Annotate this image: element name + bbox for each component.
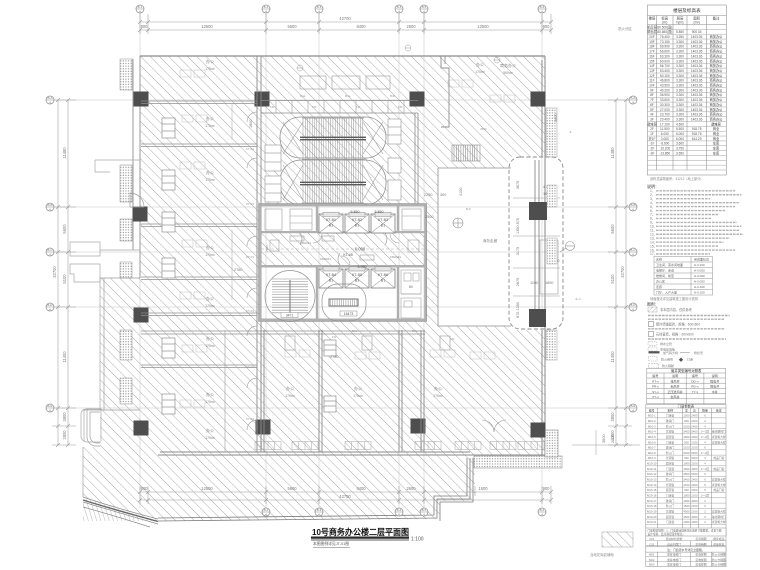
north service band walls xyxy=(261,101,418,114)
svg-text:铀化钢梯门: 铀化钢梯门 xyxy=(712,430,726,434)
svg-text:乘客电梯门: 乘客电梯门 xyxy=(667,562,681,566)
svg-text:2780: 2780 xyxy=(234,268,242,272)
svg-text:17、: 17、 xyxy=(650,252,657,256)
svg-text:73.150: 73.150 xyxy=(660,40,670,44)
svg-text:3.300: 3.300 xyxy=(676,45,684,49)
svg-text:5400: 5400 xyxy=(691,451,698,455)
right office void boundary xyxy=(438,168,511,326)
svg-text:5600: 5600 xyxy=(610,224,615,234)
SW road surface xyxy=(83,498,158,521)
svg-text:M10-8: M10-8 xyxy=(648,451,656,455)
east corridor columns xyxy=(529,202,547,327)
svg-text:PR-n: PR-n xyxy=(652,385,659,389)
svg-text:3.300: 3.300 xyxy=(676,88,684,92)
adjacent structure west xyxy=(70,242,140,442)
svg-text:66.600: 66.600 xyxy=(660,50,670,54)
leader circles top xyxy=(297,45,500,71)
svg-text:KT-03: KT-03 xyxy=(246,202,254,206)
svg-text:B7a: B7a xyxy=(352,329,358,333)
svg-text:4500: 4500 xyxy=(480,127,487,131)
svg-text:46.800: 46.800 xyxy=(660,79,670,83)
svg-text:1403.36: 1403.36 xyxy=(691,93,703,97)
svg-text:防火门: 防火门 xyxy=(666,504,675,508)
svg-text:614.29: 614.29 xyxy=(692,137,702,141)
svg-text:M10-17: M10-17 xyxy=(647,499,657,503)
svg-text:3.300: 3.300 xyxy=(676,79,684,83)
svg-text:175m²: 175m² xyxy=(285,394,295,398)
svg-text:C01: C01 xyxy=(649,537,655,541)
svg-text:M01: M01 xyxy=(649,553,655,557)
west wing AC shaft boxes xyxy=(162,118,175,414)
svg-text:B1: B1 xyxy=(355,224,359,228)
svg-text:编号: 编号 xyxy=(649,408,655,413)
svg-text:楼梯间、前室: 楼梯间、前室 xyxy=(656,273,674,278)
south-east paving band xyxy=(474,456,562,468)
corridor door squiggles xyxy=(290,233,387,265)
svg-text:详建筑大样: 详建筑大样 xyxy=(712,478,726,482)
svg-text:2400: 2400 xyxy=(691,483,698,487)
svg-text:B-E: B-E xyxy=(630,404,635,408)
svg-text:B-6: B-6 xyxy=(540,508,545,512)
svg-text:商务办公: 商务办公 xyxy=(710,78,724,83)
svg-text:名称: 名称 xyxy=(667,408,673,413)
svg-text:42700: 42700 xyxy=(339,16,351,21)
east corridor dashed outline xyxy=(509,157,563,329)
svg-text:175m²: 175m² xyxy=(475,70,485,74)
svg-text:1350 875: 1350 875 xyxy=(516,218,520,234)
svg-text:3.650: 3.650 xyxy=(676,151,684,155)
svg-text:3.300: 3.300 xyxy=(676,113,684,117)
svg-text:商务办公: 商务办公 xyxy=(710,107,724,112)
svg-text:M10-6: M10-6 xyxy=(648,440,656,444)
svg-text:C02: C02 xyxy=(649,542,655,546)
svg-text:编号: 编号 xyxy=(692,373,698,378)
svg-text:900: 900 xyxy=(684,440,689,444)
svg-text:-13.850: -13.850 xyxy=(659,151,670,155)
svg-text:800: 800 xyxy=(141,24,149,29)
svg-text:B-2: B-2 xyxy=(264,5,269,9)
svg-text:B-E: B-E xyxy=(47,404,52,408)
svg-text:6.000: 6.000 xyxy=(676,137,684,141)
svg-text:3471: 3471 xyxy=(286,314,294,318)
svg-text:1000: 1000 xyxy=(683,494,690,498)
svg-text:排风井: 排风井 xyxy=(670,379,679,384)
corridor riser boxes mid xyxy=(324,340,336,412)
svg-text:560m²: 560m² xyxy=(503,71,513,75)
svg-text:M10-19: M10-19 xyxy=(647,510,657,514)
svg-text:B7a: B7a xyxy=(412,329,418,333)
svg-text:新风井: 新风井 xyxy=(670,394,679,399)
svg-text:1403.36: 1403.36 xyxy=(691,88,703,92)
svg-text:53.400: 53.400 xyxy=(660,69,670,73)
svg-text:玻璃门: 玻璃门 xyxy=(666,419,675,423)
svg-text:固定窗: 固定窗 xyxy=(666,515,675,519)
svg-text:RD-n: RD-n xyxy=(691,385,698,389)
svg-text:3.300: 3.300 xyxy=(676,50,684,54)
svg-text:楼层及标高表: 楼层及标高表 xyxy=(673,7,701,14)
svg-text:2180: 2180 xyxy=(265,245,269,252)
svg-text:17.100: 17.100 xyxy=(660,122,670,126)
svg-text:见帘稍图: 见帘稍图 xyxy=(695,537,706,541)
small escape stair top xyxy=(452,145,480,161)
svg-text:商务办公: 商务办公 xyxy=(710,63,724,68)
south band top wall xyxy=(141,331,425,334)
bottom grid bubbles xyxy=(262,508,270,516)
svg-text:3800: 3800 xyxy=(601,434,606,443)
svg-text:B-D: B-D xyxy=(47,303,53,307)
svg-text:2100: 2100 xyxy=(691,446,698,450)
svg-text:玻璃门: 玻璃门 xyxy=(666,446,675,450)
svg-text:4500: 4500 xyxy=(683,515,690,519)
svg-text:商业: 商业 xyxy=(713,131,719,136)
leader circle right xyxy=(560,242,575,253)
svg-text:景观窗: 景观窗 xyxy=(666,456,675,460)
svg-text:强电井: 强电井 xyxy=(710,379,719,384)
svg-text:M10-1: M10-1 xyxy=(648,414,656,418)
pipe shaft table xyxy=(647,368,726,403)
svg-text:175m²: 175m² xyxy=(205,344,215,348)
svg-text:央1F: 央1F xyxy=(649,136,656,141)
svg-text:M10-2: M10-2 xyxy=(648,419,656,423)
svg-text:石材幕墙，规格：600x900: 石材幕墙，规格：600x900 xyxy=(656,332,694,337)
svg-text:说明: 说明 xyxy=(712,373,718,378)
svg-text:走廊: 走廊 xyxy=(656,284,662,289)
svg-text:商务走廊: 商务走廊 xyxy=(483,238,498,243)
svg-text:2100: 2100 xyxy=(691,462,698,466)
svg-text:3.300: 3.300 xyxy=(676,59,684,63)
svg-text:1～2层: 1～2层 xyxy=(701,435,710,439)
hatched floor slab xyxy=(83,56,545,521)
svg-text:2600: 2600 xyxy=(406,486,416,491)
elevators row 1 xyxy=(319,214,343,233)
svg-text:避难层: 避难层 xyxy=(647,121,657,126)
svg-text:正压送风井: 正压送风井 xyxy=(667,389,682,394)
svg-text:2500: 2500 xyxy=(425,215,433,219)
north wall xyxy=(140,55,545,57)
svg-text:4F: 4F xyxy=(650,113,654,117)
svg-text:商务办公: 商务办公 xyxy=(710,68,724,73)
svg-text:63.300: 63.300 xyxy=(660,54,670,58)
svg-text:办公: 办公 xyxy=(354,385,362,391)
svg-text:5600: 5600 xyxy=(287,486,297,491)
west wing inner partition xyxy=(231,104,233,300)
svg-text:管井类型编号对照表: 管井类型编号对照表 xyxy=(671,368,702,373)
svg-text:2100: 2100 xyxy=(683,483,690,487)
svg-text:5800: 5800 xyxy=(554,114,558,122)
svg-text:4.600: 4.600 xyxy=(676,122,684,126)
svg-text:商业: 商业 xyxy=(713,136,719,141)
svg-text:M10-18: M10-18 xyxy=(647,504,657,508)
escalator cross braces xyxy=(283,122,383,200)
svg-text:M10-4: M10-4 xyxy=(648,430,656,434)
east corridor cutout xyxy=(508,157,564,330)
column symbol circle xyxy=(453,218,463,228)
svg-text:2100: 2100 xyxy=(683,424,690,428)
svg-text:商务办公: 商务办公 xyxy=(710,112,724,117)
svg-text:6F: 6F xyxy=(650,103,654,107)
svg-text:M02: M02 xyxy=(649,558,655,562)
svg-text:B-A: B-A xyxy=(630,96,635,100)
svg-text:1403.36: 1403.36 xyxy=(691,50,703,54)
svg-text:图例：: 图例： xyxy=(647,302,658,307)
svg-text:5400: 5400 xyxy=(691,430,698,434)
svg-text:防火隔斷: 防火隔斷 xyxy=(662,363,674,368)
svg-text:2400: 2400 xyxy=(691,424,698,428)
svg-text:1403.36: 1403.36 xyxy=(691,54,703,58)
svg-text:M10-10: M10-10 xyxy=(647,462,657,466)
svg-text:3.300: 3.300 xyxy=(676,54,684,58)
svg-text:水井: 水井 xyxy=(712,389,718,394)
svg-text:B-B: B-B xyxy=(630,203,635,207)
svg-text:16F: 16F xyxy=(649,54,655,58)
door window schedule table xyxy=(646,405,726,567)
svg-text:M10-5: M10-5 xyxy=(648,435,656,439)
svg-text:办公: 办公 xyxy=(206,335,214,341)
svg-text:(m): (m) xyxy=(662,21,667,25)
svg-text:3175: 3175 xyxy=(516,247,520,255)
core walls gray fill xyxy=(259,204,428,322)
svg-text:1～2层: 1～2层 xyxy=(701,451,710,455)
core corridor details xyxy=(261,234,425,265)
svg-text:新风井: 新风井 xyxy=(670,384,679,389)
svg-text:(m²): (m²) xyxy=(693,21,699,25)
svg-text:商业: 商业 xyxy=(713,126,719,131)
svg-text:弱电井: 弱电井 xyxy=(710,384,719,389)
svg-text:2780: 2780 xyxy=(330,355,338,359)
svg-text:5.500: 5.500 xyxy=(676,127,684,131)
svg-text:3800: 3800 xyxy=(610,412,615,422)
svg-text:5600: 5600 xyxy=(287,24,297,29)
svg-text:6.000: 6.000 xyxy=(661,132,669,136)
svg-text:办公: 办公 xyxy=(286,385,294,391)
svg-text:见电梯图: 见电梯图 xyxy=(695,562,706,566)
svg-text:900: 900 xyxy=(543,24,551,29)
svg-text:3.300: 3.300 xyxy=(676,64,684,68)
svg-text:商务办公: 商务办公 xyxy=(710,39,724,44)
svg-text:栎栏景: 栎栏景 xyxy=(694,350,703,355)
west wing door arcs xyxy=(247,112,257,430)
svg-text:5.850: 5.850 xyxy=(676,30,684,34)
svg-text:JL: JL xyxy=(569,130,573,134)
svg-text:乘客电梯门: 乘客电梯门 xyxy=(667,553,681,557)
svg-text:4500: 4500 xyxy=(683,472,690,476)
svg-text:175m²: 175m² xyxy=(205,253,215,257)
svg-text:机房层: 机房层 xyxy=(647,24,657,29)
svg-text:商务办公: 商务办公 xyxy=(710,83,724,88)
svg-text:2600: 2600 xyxy=(406,24,416,29)
svg-text:20F: 20F xyxy=(649,35,655,39)
svg-text:1500: 1500 xyxy=(683,414,690,418)
svg-text:11F: 11F xyxy=(649,79,654,83)
svg-text:详建筑大样: 详建筑大样 xyxy=(712,510,726,514)
svg-text:办公: 办公 xyxy=(476,61,484,67)
svg-text:175m²: 175m² xyxy=(205,436,215,440)
svg-text:B1: B1 xyxy=(381,279,385,283)
svg-text:900.34: 900.34 xyxy=(692,30,702,34)
escalator tread band xyxy=(303,118,363,204)
svg-text:900: 900 xyxy=(684,419,689,423)
svg-text:40.200: 40.200 xyxy=(660,88,670,92)
svg-text:1～2层: 1～2层 xyxy=(701,494,710,498)
svg-text:H-0.050: H-0.050 xyxy=(694,268,705,272)
svg-text:办公: 办公 xyxy=(206,295,214,301)
structural columns xyxy=(133,92,546,438)
svg-text:2400: 2400 xyxy=(691,478,698,482)
east corridor dim texts xyxy=(516,181,560,318)
svg-text:11480: 11480 xyxy=(62,147,67,159)
svg-text:32700: 32700 xyxy=(52,266,57,278)
svg-text:FM: FM xyxy=(332,335,337,339)
svg-text:PT-n: PT-n xyxy=(652,380,659,384)
svg-text:B4b: B4b xyxy=(390,94,396,98)
svg-text:办公: 办公 xyxy=(206,427,214,433)
core cutout lower band xyxy=(260,266,425,321)
east wall xyxy=(542,56,545,457)
svg-text:M10-15: M10-15 xyxy=(647,488,657,492)
svg-text:B-3: B-3 xyxy=(317,5,322,9)
svg-text:20.400: 20.400 xyxy=(660,117,670,121)
svg-text:KT-03: KT-03 xyxy=(246,365,254,369)
svg-text:KT-B2: KT-B2 xyxy=(352,218,362,222)
svg-text:2F: 2F xyxy=(650,127,654,131)
svg-text:数量: 数量 xyxy=(702,408,708,413)
svg-text:商务办公: 商务办公 xyxy=(710,87,724,92)
svg-text:B-8: B-8 xyxy=(466,207,471,211)
svg-text:高: 高 xyxy=(693,408,696,413)
svg-text:33.600: 33.600 xyxy=(660,98,670,102)
door arc bottom xyxy=(482,420,506,432)
svg-text:3.750: 3.750 xyxy=(676,147,684,151)
svg-text:1403.36: 1403.36 xyxy=(691,74,703,78)
svg-text:成品门窗: 成品门窗 xyxy=(713,456,724,460)
svg-text:3300: 3300 xyxy=(691,499,698,503)
svg-text:9F: 9F xyxy=(650,88,654,92)
elevators row 2 xyxy=(319,269,343,288)
floor height table xyxy=(648,5,727,175)
svg-text:商务办公: 商务办公 xyxy=(710,73,724,78)
east corridor wall xyxy=(535,160,539,327)
svg-text:屋面层: 屋面层 xyxy=(647,29,657,34)
svg-text:3.250: 3.250 xyxy=(676,35,684,39)
svg-text:27.000: 27.000 xyxy=(660,108,670,112)
svg-text:FM2021: FM2021 xyxy=(300,241,311,245)
svg-text:1403.36: 1403.36 xyxy=(691,35,703,39)
svg-text:地面做法详见建筑施工图设计说明: 地面做法详见建筑施工图设计说明 xyxy=(650,296,698,301)
svg-text:-2F: -2F xyxy=(650,147,655,151)
svg-text:成品安装: 成品安装 xyxy=(713,542,724,546)
svg-text:KT-B5: KT-B5 xyxy=(352,273,362,277)
SE extra dims 3800 2800 xyxy=(601,434,615,443)
svg-text:1403.36: 1403.36 xyxy=(691,59,703,63)
svg-text:12500: 12500 xyxy=(201,486,213,491)
svg-text:见电梯图: 见电梯图 xyxy=(695,553,706,557)
svg-text:办公: 办公 xyxy=(434,385,442,391)
svg-text:JL-2: JL-2 xyxy=(575,297,581,301)
svg-text:KT-B4: KT-B4 xyxy=(326,273,336,277)
svg-text:h(m): h(m) xyxy=(677,21,684,25)
svg-text:B-1: B-1 xyxy=(138,5,143,9)
annex walls xyxy=(100,278,140,410)
svg-text:加气码大树: 加气码大树 xyxy=(663,350,678,355)
svg-text:10F: 10F xyxy=(649,84,655,88)
svg-text:TY-1: TY-1 xyxy=(692,390,699,394)
svg-text:商务办公: 商务办公 xyxy=(710,116,724,121)
svg-text:防火卡稍图: 防火卡稍图 xyxy=(712,562,726,566)
svg-text:800: 800 xyxy=(141,486,149,491)
room labels xyxy=(205,26,632,440)
svg-text:DD-n: DD-n xyxy=(691,380,698,384)
interior dims xyxy=(234,120,463,359)
svg-text:名称: 名称 xyxy=(656,256,662,261)
svg-text:门连窗: 门连窗 xyxy=(666,494,675,498)
svg-text:3300: 3300 xyxy=(691,520,698,524)
svg-text:办公区: 办公区 xyxy=(656,278,665,283)
svg-text:6.000: 6.000 xyxy=(676,132,684,136)
elevator labels xyxy=(326,210,388,283)
svg-text:M10-3: M10-3 xyxy=(648,424,656,428)
svg-text:固定窗: 固定窗 xyxy=(666,488,675,492)
svg-text:FM: FM xyxy=(398,105,403,109)
svg-text:备注: 备注 xyxy=(716,408,722,413)
svg-text:1403.36: 1403.36 xyxy=(691,103,703,107)
svg-text:B-B: B-B xyxy=(47,203,52,207)
hall east wall xyxy=(415,113,418,205)
top dimension chain xyxy=(138,14,553,34)
right grid bubbles xyxy=(629,96,637,104)
corridor wall west wing xyxy=(257,56,261,452)
svg-text:KT-B6: KT-B6 xyxy=(378,273,388,277)
svg-text:楼层: 楼层 xyxy=(649,16,656,21)
svg-text:H-0.050: H-0.050 xyxy=(694,279,705,283)
svg-text:14F: 14F xyxy=(649,64,655,68)
svg-text:900: 900 xyxy=(684,488,689,492)
svg-text:B-A: B-A xyxy=(47,96,52,100)
bottom rooms inner lines xyxy=(225,330,450,452)
svg-text:防火卷帘: 防火卷帘 xyxy=(661,357,673,362)
svg-text:门连窗: 门连窗 xyxy=(666,467,675,471)
svg-text:11400: 11400 xyxy=(610,351,615,363)
svg-text:3.300: 3.300 xyxy=(676,40,684,44)
svg-text:KT-#5: KT-#5 xyxy=(343,253,353,257)
svg-text:本图图例详见JT-01图: 本图图例详见JT-01图 xyxy=(313,541,349,546)
svg-text:3.300: 3.300 xyxy=(676,108,684,112)
svg-text:门窗检验规则：1、门窗玻璃规格均应满足节能要求，详见节能: 门窗检验规则：1、门窗玻璃规格均应满足节能要求，详见节能 xyxy=(648,529,722,533)
svg-text:B1: B1 xyxy=(381,224,385,228)
core stair oval xyxy=(265,271,315,322)
svg-text:76.400: 76.400 xyxy=(660,35,670,39)
core stair xyxy=(272,279,308,313)
fixtures xyxy=(345,442,371,450)
svg-text:1403.36: 1403.36 xyxy=(691,69,703,73)
svg-text:商务办公: 商务办公 xyxy=(710,53,724,58)
svg-text:KT-B1: KT-B1 xyxy=(326,218,336,222)
svg-text:该栋总建筑面积：31212（地上部分）: 该栋总建筑面积：31212（地上部分） xyxy=(650,176,704,181)
svg-text:2100: 2100 xyxy=(691,494,698,498)
svg-text:5100: 5100 xyxy=(62,274,67,284)
svg-text:B4a: B4a xyxy=(345,94,351,98)
svg-text:M10-11: M10-11 xyxy=(647,467,657,471)
svg-text:50.100: 50.100 xyxy=(660,74,670,78)
finish level table xyxy=(654,257,713,296)
svg-text:2100: 2100 xyxy=(683,446,690,450)
svg-text:1500: 1500 xyxy=(683,467,690,471)
grid axis lines vertical xyxy=(140,13,542,508)
svg-text:B6: B6 xyxy=(409,285,413,289)
svg-text:KT-03: KT-03 xyxy=(246,309,254,313)
svg-text:10号商务办公楼二层平面图: 10号商务办公楼二层平面图 xyxy=(312,526,409,537)
svg-text:景观窗: 景观窗 xyxy=(666,483,675,487)
west facade piers xyxy=(120,59,132,404)
